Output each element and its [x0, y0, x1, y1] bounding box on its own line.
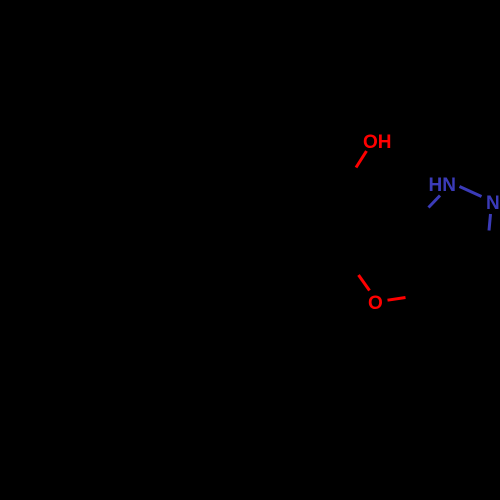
svg-text:O: O	[368, 293, 383, 314]
svg-text:N: N	[486, 193, 500, 214]
bond N1-N2 (pyrazole N-N)	[460, 187, 482, 197]
bond C-O (ether, upper-left) red stub	[359, 275, 370, 291]
bond N1-C (pyrazole NH to ring carbon) blue stub	[429, 196, 441, 208]
bond C-O (phenol) red stub	[356, 151, 367, 168]
bond N2=C3 blue stub	[489, 214, 491, 231]
bond O-C (ether, right) red stub	[388, 298, 406, 301]
svg-text:HN: HN	[429, 175, 456, 196]
svg-text:OH: OH	[363, 132, 392, 153]
